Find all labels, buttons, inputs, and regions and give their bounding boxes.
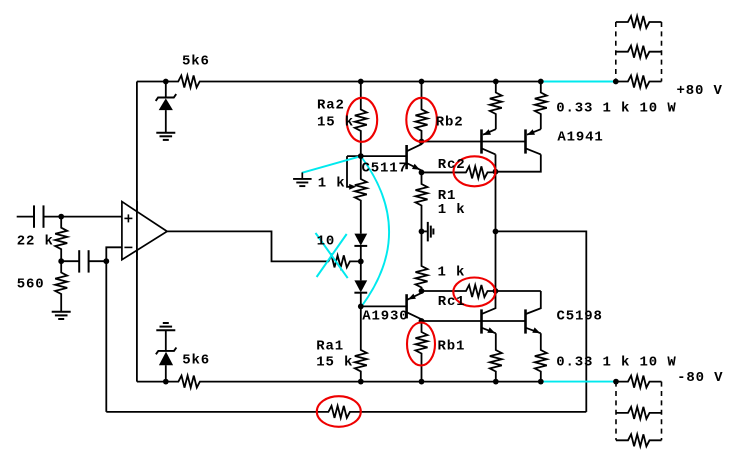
svg-text:1 k: 1 k (438, 265, 466, 281)
svg-text:560: 560 (17, 277, 45, 293)
svg-text:A1930: A1930 (362, 309, 408, 325)
svg-text:-80 V: -80 V (677, 370, 723, 386)
svg-text:0.33 1 k 10 W: 0.33 1 k 10 W (556, 100, 676, 116)
svg-text:A1941: A1941 (557, 130, 603, 146)
svg-text:+80 V: +80 V (677, 83, 723, 99)
svg-text:Rc1: Rc1 (438, 294, 466, 310)
svg-text:0.33 1 k 10 W: 0.33 1 k 10 W (556, 355, 676, 371)
svg-text:Rc2: Rc2 (438, 157, 466, 173)
svg-text:15 k: 15 k (317, 115, 354, 131)
svg-text:5k6: 5k6 (182, 353, 210, 369)
svg-text:Ra1: Ra1 (316, 339, 344, 355)
svg-text:C5198: C5198 (557, 309, 603, 325)
svg-text:Rb2: Rb2 (436, 115, 464, 131)
svg-text:1 k: 1 k (438, 202, 466, 218)
svg-text:C5117: C5117 (362, 160, 408, 176)
svg-text:Rb1: Rb1 (438, 339, 466, 355)
svg-text:5k6: 5k6 (182, 54, 210, 70)
svg-text:1 k: 1 k (318, 176, 346, 192)
svg-text:15 k: 15 k (316, 355, 353, 371)
svg-text:Ra2: Ra2 (317, 98, 345, 114)
svg-text:10: 10 (317, 234, 336, 250)
svg-text:22 k: 22 k (17, 234, 54, 250)
